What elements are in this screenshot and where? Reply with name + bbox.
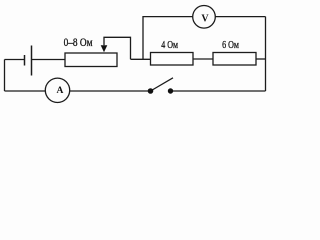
svg-text:V: V bbox=[201, 14, 209, 25]
svg-text:4 Ом: 4 Ом bbox=[161, 40, 178, 51]
svg-text:6 Ом: 6 Ом bbox=[222, 40, 239, 51]
svg-text:A: A bbox=[56, 86, 63, 96]
svg-text:0–8 Ом: 0–8 Ом bbox=[64, 37, 94, 49]
